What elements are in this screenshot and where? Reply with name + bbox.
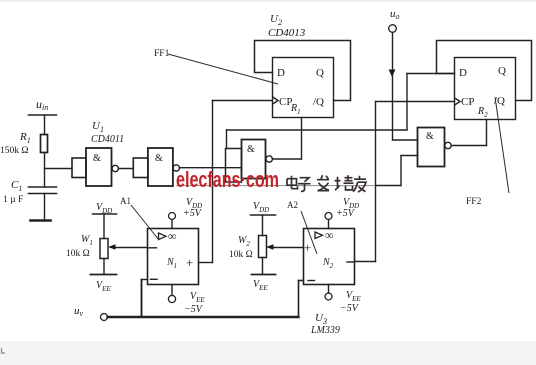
svg-text:CP: CP xyxy=(461,96,474,108)
svg-text:+5V: +5V xyxy=(183,208,203,219)
svg-text:R1: R1 xyxy=(19,131,31,145)
svg-text:D: D xyxy=(459,67,467,79)
svg-text:W2: W2 xyxy=(238,235,250,248)
svg-text:VEE: VEE xyxy=(253,279,268,292)
svg-text:Q: Q xyxy=(498,65,506,77)
svg-text:uv: uv xyxy=(74,305,84,318)
svg-text:−5V: −5V xyxy=(184,304,204,315)
svg-text:/Q: /Q xyxy=(313,96,324,108)
svg-text:∞: ∞ xyxy=(168,229,177,243)
svg-text:FF1: FF1 xyxy=(154,49,170,59)
svg-text:U3: U3 xyxy=(315,312,327,326)
svg-text:uin: uin xyxy=(36,97,48,112)
svg-text:+: + xyxy=(304,240,311,255)
svg-text:+: + xyxy=(186,255,193,270)
svg-text:10k Ω: 10k Ω xyxy=(229,250,253,260)
svg-text:1 µ F: 1 µ F xyxy=(3,195,23,205)
svg-text:∞: ∞ xyxy=(325,228,334,242)
svg-text:R2: R2 xyxy=(477,106,488,119)
svg-text:A1: A1 xyxy=(120,196,131,206)
svg-text:VEE: VEE xyxy=(190,291,205,304)
svg-text:U1: U1 xyxy=(92,120,104,134)
svg-text:/Q: /Q xyxy=(494,95,505,107)
svg-text:U2: U2 xyxy=(270,13,282,27)
svg-text:VDD: VDD xyxy=(96,202,112,215)
svg-text:Q: Q xyxy=(316,67,324,79)
svg-text:A2: A2 xyxy=(287,200,298,210)
svg-text:N2: N2 xyxy=(322,257,334,270)
svg-text:VDD: VDD xyxy=(253,201,269,214)
svg-text:CD4011: CD4011 xyxy=(91,134,124,145)
svg-text:elecfans·com: elecfans·com xyxy=(176,167,279,192)
svg-text:&: & xyxy=(247,144,255,155)
svg-text:FF2: FF2 xyxy=(466,197,482,207)
svg-text:W1: W1 xyxy=(81,234,93,247)
svg-text:N1: N1 xyxy=(166,257,177,270)
svg-text:−5V: −5V xyxy=(340,303,360,314)
svg-text:D: D xyxy=(277,67,285,79)
svg-text:VEE: VEE xyxy=(346,290,361,303)
svg-text:C1: C1 xyxy=(11,179,22,193)
svg-text:R1: R1 xyxy=(290,103,301,116)
svg-text:&: & xyxy=(426,131,434,142)
svg-text:VEE: VEE xyxy=(96,280,111,293)
svg-text:uo: uo xyxy=(390,8,400,21)
svg-text:LM339: LM339 xyxy=(310,325,340,336)
svg-text:&: & xyxy=(155,153,163,164)
svg-text:&: & xyxy=(93,153,101,164)
svg-text:150k Ω: 150k Ω xyxy=(0,146,28,156)
svg-text:10k Ω: 10k Ω xyxy=(66,249,90,259)
svg-text:CD4013: CD4013 xyxy=(268,27,306,39)
svg-text:+5V: +5V xyxy=(336,208,356,219)
